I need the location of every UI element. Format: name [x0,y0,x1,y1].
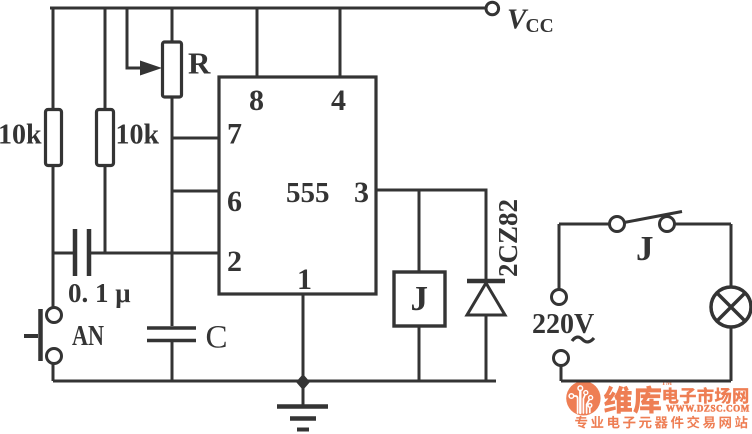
capacitor 0.1u plates [75,229,89,276]
logo icon circuit traces [569,386,592,413]
svg-text:220V: 220V [532,309,594,340]
wire: right circuit bottom [561,380,731,383]
svg-text:2: 2 [227,245,242,278]
wire: pin 2 line left of capacitor [53,252,73,255]
wire: pin 3 output line [376,190,486,281]
svg-text:2CZ82: 2CZ82 [493,199,523,277]
wire: wiper branch from rail [127,8,148,68]
logo wordmark 电子市场网 [663,387,678,403]
arrow: potentiometer wiper [140,61,162,76]
svg-text:CC: CC [526,16,554,37]
wire: button bottom to ground rail [52,364,55,381]
wire: pin 4 to rail [339,8,342,77]
lamp cross [717,293,745,321]
svg-text:4: 4 [331,84,346,117]
capacitor C plates [147,328,196,341]
logo slogan [575,416,587,429]
svg-text:10k: 10k [116,120,160,151]
wire: R bottom lead down to capacitor C [171,97,174,326]
svg-text:6: 6 [227,185,242,218]
resistor R2 10k body [97,110,114,166]
wire: contact circuit top right [674,223,731,226]
wire: lamp bottom lead [730,327,733,381]
svg-text:J: J [636,229,654,268]
logo icon circle [566,381,600,415]
potentiometer R body [163,42,182,97]
svg-text:8: 8 [249,84,264,117]
wire: relay bottom lead [418,326,421,381]
wire: ground rail [53,380,496,383]
pushbutton AN plunger [38,309,43,361]
wire: contact circuit top left [559,223,610,226]
svg-text:R: R [188,46,211,81]
wire: VCC top rail [50,7,486,10]
wire: second branch from rail to R2 [104,8,107,109]
ground symbol stem [302,382,305,405]
svg-text:0. 1 μ: 0. 1 μ [68,278,131,308]
wire: left branch from rail to R1 [52,8,55,109]
junction: pin1/ground [296,374,310,390]
wire: pin 8 to rail [256,8,259,77]
pushbutton AN contact bottom [47,349,62,364]
switch lever [624,212,682,223]
wire: R2 bottom to pin2 line [104,166,107,253]
label ~ (AC) [572,337,594,342]
node: AC terminal bottom [554,351,569,366]
svg-text:3: 3 [354,176,369,209]
logo wordmark 维库 [604,386,632,414]
svg-text:10k: 10k [0,120,42,151]
svg-text:7: 7 [227,118,242,151]
switch contact right [660,217,675,232]
wire: diode bottom lead [485,315,488,381]
lamp body [711,287,751,327]
wire: pin 6 stub [172,190,219,193]
wire: AC source top lead [558,224,561,289]
wire: lamp top lead [730,224,733,287]
ground symbol bar 3 [297,428,309,432]
wire: left branch to button [52,253,55,308]
node VCC terminal [486,2,499,15]
switch contact left [610,217,625,232]
wire: relay branch [418,190,421,271]
IC U1 555 box [219,77,376,294]
svg-text:AN: AN [72,321,104,352]
svg-text:WWW.DZSC.COM: WWW.DZSC.COM [666,403,750,413]
node: AC terminal top [552,290,567,305]
wire: pin 2 line right of capacitor [91,252,219,255]
ground symbol bar 1 [277,404,328,409]
wire: AC source bottom lead [560,366,563,381]
resistor R1 10k body [46,110,62,166]
svg-text:J: J [411,279,429,318]
svg-text:555: 555 [286,177,330,209]
ground symbol bar 2 [290,416,316,421]
wire: C bottom lead [171,342,174,381]
relay J box [394,272,445,326]
diode D1 triangle [467,283,505,315]
wire: R1 bottom to pin2 line [52,166,55,254]
wire: pin 7 stub [172,137,219,140]
pushbutton AN contact top [47,308,62,323]
wire: pin 1 to ground rail [302,294,305,381]
svg-text:1: 1 [297,263,312,296]
wire: R top lead [171,8,174,42]
diode D1 cathode bar [467,279,505,284]
svg-text:C: C [206,320,228,356]
